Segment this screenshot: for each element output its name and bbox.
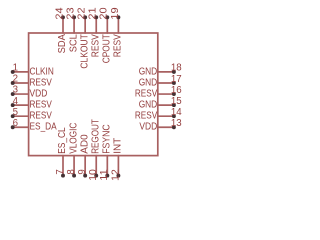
svg-text:FSYNC: FSYNC [102, 124, 113, 154]
svg-text:12: 12 [110, 169, 121, 181]
svg-text:INT: INT [113, 137, 124, 154]
svg-text:3: 3 [13, 85, 18, 96]
pin 14 RESV (right) [135, 107, 182, 122]
svg-text:10: 10 [88, 169, 99, 181]
pin 21 RESV (top) [88, 7, 102, 57]
pin 7 ES_CL (bottom) [55, 127, 68, 177]
svg-text:11: 11 [99, 169, 110, 181]
svg-text:ES_DA: ES_DA [30, 122, 57, 133]
pin 9 AD0 (bottom) [77, 134, 90, 177]
svg-text:RESV: RESV [30, 111, 52, 122]
svg-text:2: 2 [13, 74, 18, 85]
pin 2 RESV (left) [11, 74, 52, 89]
pin 22 CLKOUT (top) [77, 7, 91, 68]
svg-text:RESV: RESV [113, 34, 124, 57]
svg-text:8: 8 [66, 169, 77, 174]
svg-text:GND: GND [139, 100, 158, 111]
svg-text:RESV: RESV [30, 77, 52, 88]
svg-text:CPOUT: CPOUT [102, 34, 113, 64]
svg-text:14: 14 [171, 107, 182, 118]
pin 5 RESV (left) [11, 107, 52, 122]
svg-text:SCL: SCL [68, 34, 79, 52]
IC body U1 (MPU-6050 symbol outline) [29, 33, 158, 156]
pin 4 RESV (left) [11, 96, 52, 111]
svg-text:VLOGIC: VLOGIC [68, 122, 79, 154]
pin 11 FSYNC (bottom) [99, 124, 112, 181]
pin 23 SCL (top) [65, 7, 79, 52]
svg-text:CLKOUT: CLKOUT [79, 34, 90, 69]
pin 6 ES_DA (left) [11, 118, 57, 133]
pin 20 CPOUT (top) [99, 7, 113, 63]
svg-text:CLKIN: CLKIN [30, 66, 54, 77]
svg-text:24: 24 [54, 7, 65, 20]
pin 10 REGOUT (bottom) [88, 119, 101, 181]
svg-text:20: 20 [99, 7, 110, 20]
svg-text:13: 13 [171, 118, 182, 129]
pin 8 VLOGIC (bottom) [66, 122, 79, 177]
svg-text:SDA: SDA [57, 34, 68, 53]
pin 18 GND (right) [139, 63, 182, 78]
pin 1 CLKIN (left) [11, 63, 54, 78]
svg-text:23: 23 [65, 7, 76, 19]
svg-text:GND: GND [139, 77, 158, 88]
pin 16 RESV (right) [135, 85, 182, 100]
svg-text:16: 16 [171, 85, 182, 96]
svg-text:18: 18 [171, 63, 182, 74]
svg-text:RESV: RESV [90, 34, 101, 57]
pin 17 GND (right) [139, 74, 182, 89]
pin 3 VDD (left) [11, 85, 48, 100]
svg-text:AD0: AD0 [79, 134, 90, 154]
svg-text:GND: GND [139, 66, 158, 77]
pin 19 RESV (top) [110, 7, 124, 57]
svg-text:19: 19 [110, 7, 121, 19]
svg-text:15: 15 [171, 96, 182, 107]
svg-text:17: 17 [171, 74, 182, 85]
svg-text:9: 9 [77, 169, 88, 174]
svg-text:VDD: VDD [30, 88, 48, 99]
svg-text:6: 6 [13, 118, 18, 129]
svg-text:RESV: RESV [135, 88, 157, 99]
pin 13 VDD (right) [139, 118, 181, 133]
svg-text:RESV: RESV [30, 100, 52, 111]
svg-text:5: 5 [13, 107, 18, 118]
pin 15 GND (right) [139, 96, 182, 111]
svg-text:21: 21 [88, 7, 99, 19]
svg-text:VDD: VDD [139, 122, 157, 133]
pin 24 SDA (top) [54, 7, 68, 54]
svg-text:REGOUT: REGOUT [90, 119, 101, 154]
svg-text:7: 7 [55, 169, 66, 174]
svg-text:RESV: RESV [135, 111, 157, 122]
svg-text:1: 1 [13, 63, 18, 74]
svg-text:4: 4 [13, 96, 19, 107]
svg-text:22: 22 [77, 7, 88, 19]
pin 12 INT (bottom) [110, 137, 123, 181]
svg-text:ES_CL: ES_CL [57, 127, 68, 154]
